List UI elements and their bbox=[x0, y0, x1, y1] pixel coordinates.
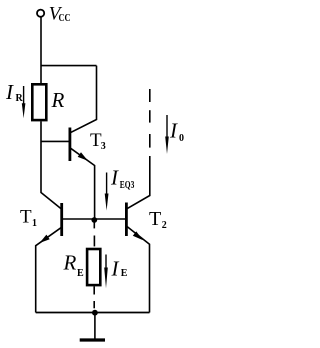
svg-text:CC: CC bbox=[59, 13, 71, 24]
svg-text:3: 3 bbox=[101, 141, 106, 152]
svg-text:1: 1 bbox=[32, 218, 37, 229]
svg-text:T: T bbox=[149, 208, 161, 230]
svg-text:R: R bbox=[51, 88, 65, 112]
svg-text:E: E bbox=[77, 268, 84, 279]
svg-text:0: 0 bbox=[179, 133, 184, 144]
svg-text:I: I bbox=[111, 257, 120, 281]
svg-text:EQ3: EQ3 bbox=[120, 180, 135, 191]
svg-text:2: 2 bbox=[162, 220, 167, 231]
svg-text:R: R bbox=[63, 251, 77, 275]
svg-text:I: I bbox=[110, 166, 119, 190]
svg-text:R: R bbox=[16, 93, 24, 104]
svg-text:E: E bbox=[121, 268, 128, 279]
svg-text:T: T bbox=[20, 206, 32, 227]
svg-text:I: I bbox=[5, 80, 14, 104]
svg-text:I: I bbox=[169, 119, 178, 143]
